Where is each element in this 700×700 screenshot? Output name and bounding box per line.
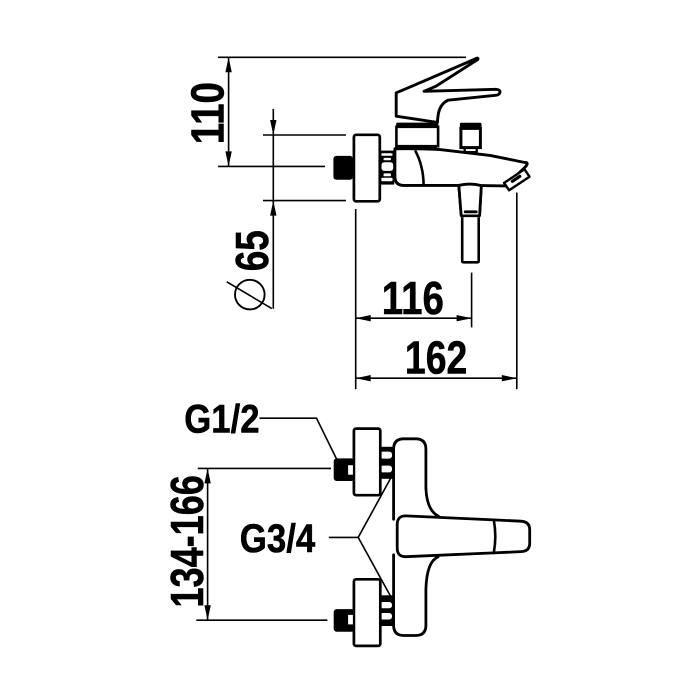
- svg-text:65: 65: [226, 230, 278, 271]
- svg-text:110: 110: [182, 82, 233, 144]
- svg-text:G1/2: G1/2: [184, 396, 259, 441]
- svg-text:162: 162: [405, 332, 467, 384]
- svg-text:134-166: 134-166: [162, 475, 213, 607]
- svg-text:116: 116: [382, 273, 444, 324]
- svg-text:G3/4: G3/4: [240, 516, 316, 561]
